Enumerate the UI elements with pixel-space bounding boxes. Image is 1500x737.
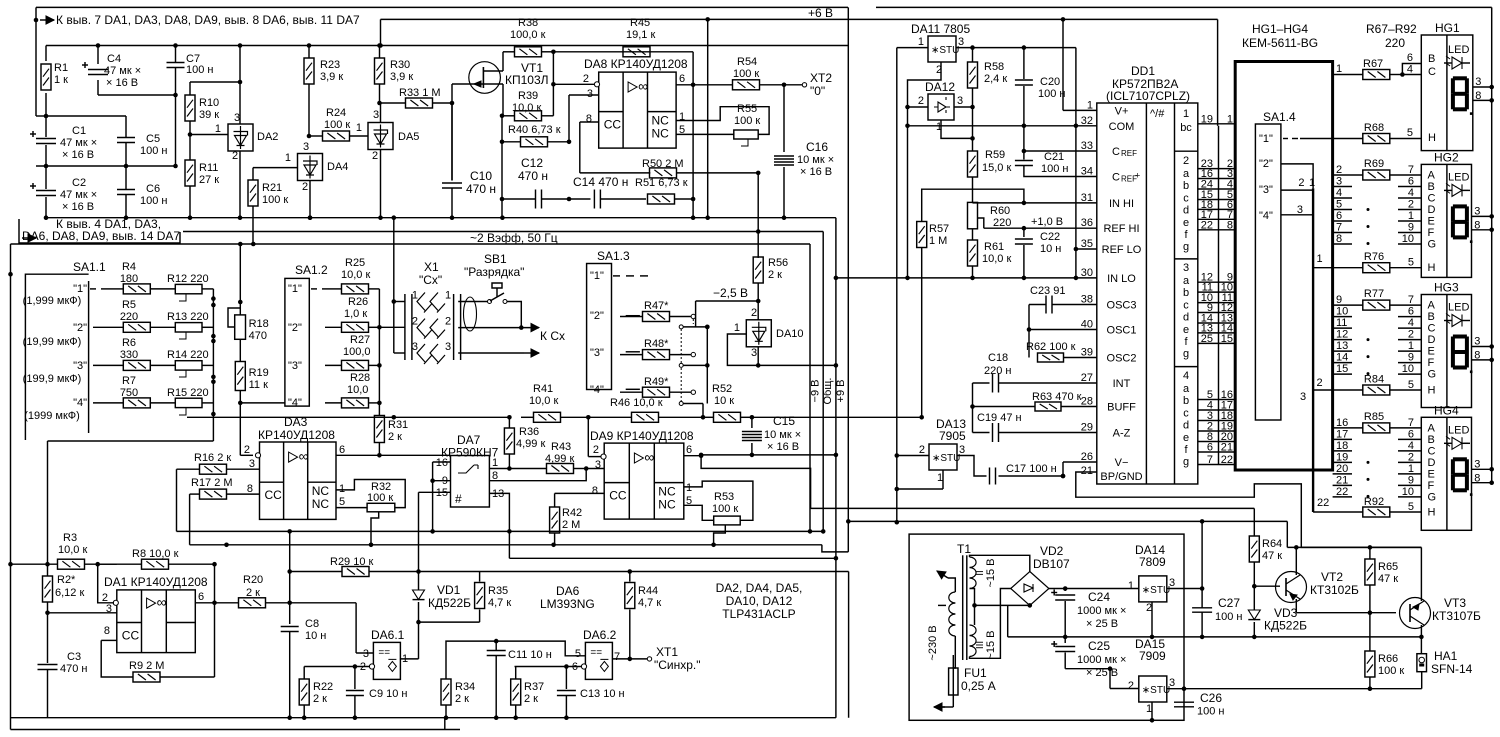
wire DA11 pin3 +5V line	[956, 47, 1076, 49]
svg-text:6: 6	[1336, 210, 1342, 222]
wire DA13 pin3 C17 to V-	[957, 456, 987, 477]
wire DA1 pin6	[195, 602, 239, 604]
svg-text:2 к: 2 к	[388, 431, 402, 443]
capacitor C27	[1192, 607, 1212, 609]
svg-text:C: C	[1428, 445, 1436, 457]
svg-text:31: 31	[1081, 192, 1093, 204]
svg-text:7: 7	[1207, 454, 1213, 466]
wire K Cx arrow	[521, 327, 539, 329]
preset R13	[175, 323, 202, 332]
svg-text:a: a	[1183, 383, 1190, 395]
svg-text:27: 27	[1081, 372, 1093, 384]
svg-text:47 мк ×: 47 мк ×	[104, 65, 141, 77]
svg-text:d: d	[1183, 312, 1189, 324]
svg-text:2 к: 2 к	[524, 693, 538, 705]
svg-text:A: A	[1428, 422, 1436, 434]
wire DA2 pin1 from R10/R11	[190, 134, 228, 136]
wire X1 row3 arrow	[458, 352, 524, 354]
svg-text:F: F	[1428, 227, 1435, 239]
svg-text:SFN-14: SFN-14	[1431, 662, 1473, 676]
svg-text:R37: R37	[524, 681, 544, 693]
svg-text:4: 4	[1183, 370, 1189, 382]
svg-text:5: 5	[1408, 501, 1414, 513]
svg-text:DA6.1: DA6.1	[371, 628, 405, 642]
svg-text:R39: R39	[518, 90, 538, 102]
svg-text:5: 5	[575, 648, 581, 660]
svg-text:R51 6,73 к: R51 6,73 к	[635, 177, 688, 189]
op-amp DA3	[260, 442, 337, 519]
svg-text:R44: R44	[638, 585, 658, 597]
svg-text:SA1.4: SA1.4	[1263, 110, 1296, 124]
svg-text:1: 1	[1408, 340, 1414, 352]
resistor R22	[303, 667, 305, 680]
capacitor C25	[1064, 637, 1066, 643]
resistor R4	[110, 288, 123, 290]
svg-text:10,0 к: 10,0 к	[58, 544, 87, 556]
svg-text:2: 2	[1408, 199, 1414, 211]
wire VT2 base	[1254, 585, 1280, 587]
svg-text:4: 4	[1408, 187, 1414, 199]
resistor R64	[1249, 536, 1259, 562]
svg-text:NC: NC	[652, 114, 670, 128]
svg-text:39 к: 39 к	[199, 109, 219, 121]
wire R43 to DA9 pin3	[586, 468, 604, 470]
svg-text:2 к: 2 к	[313, 693, 327, 705]
svg-text:E: E	[1428, 346, 1435, 358]
wire DA5 pin2 down	[380, 150, 382, 218]
svg-text:R14 220: R14 220	[167, 349, 209, 361]
svg-text:HA1: HA1	[1434, 649, 1458, 663]
svg-text:C24: C24	[1088, 590, 1110, 604]
svg-text:DA4: DA4	[327, 161, 348, 173]
wire X1 row2	[458, 327, 521, 329]
svg-text:11 к: 11 к	[249, 379, 268, 391]
svg-text:1: 1	[734, 322, 740, 334]
svg-text:DA12: DA12	[925, 80, 955, 94]
wire rail3	[509, 557, 836, 559]
svg-text:R8 10,0 к: R8 10,0 к	[132, 548, 179, 560]
resistor R11	[189, 135, 191, 161]
resistor R45	[692, 52, 694, 85]
resistor R28	[325, 402, 341, 404]
svg-text:R63 470 к: R63 470 к	[1032, 391, 1082, 403]
svg-text:47 к: 47 к	[1262, 550, 1282, 562]
svg-text:"Cх": "Cх"	[419, 273, 442, 287]
wire R25-R28 bus	[378, 289, 380, 416]
capacitor C6	[125, 166, 127, 189]
svg-text:3: 3	[303, 141, 309, 153]
svg-text:220: 220	[1385, 36, 1405, 50]
svg-text:LED: LED	[1448, 302, 1469, 314]
svg-text:16: 16	[1336, 417, 1348, 429]
svg-text:3: 3	[959, 444, 965, 456]
resistor R39	[502, 115, 515, 117]
svg-text:H: H	[1428, 132, 1436, 144]
svg-text:2: 2	[918, 95, 924, 107]
svg-text:C25: C25	[1088, 639, 1110, 653]
wire DA4 pin2 down	[309, 181, 311, 218]
svg-text:× 16 В: × 16 В	[106, 77, 138, 89]
capacitor C2	[45, 166, 47, 189]
svg-text:1000 мк ×: 1000 мк ×	[1077, 654, 1126, 666]
svg-text:C22: C22	[1040, 231, 1060, 243]
svg-text:C26: C26	[1200, 691, 1222, 705]
svg-text:~15 В: ~15 В	[985, 558, 997, 587]
svg-text:0,25 А: 0,25 А	[961, 679, 996, 693]
resistor R30	[379, 46, 381, 59]
svg-text:R27: R27	[350, 334, 370, 346]
svg-text:26: 26	[1081, 451, 1093, 463]
svg-text:C4: C4	[107, 53, 121, 65]
svg-text:3: 3	[1474, 458, 1480, 470]
svg-text:4: 4	[1407, 64, 1413, 76]
svg-text:SA1.2: SA1.2	[295, 263, 328, 277]
svg-text:B: B	[1428, 53, 1435, 65]
svg-text:C14 470 н: C14 470 н	[573, 175, 628, 189]
wire DA12 pin2	[908, 106, 929, 108]
svg-text:3: 3	[234, 112, 240, 124]
resistor R58	[972, 48, 974, 62]
svg-text:10 мк ×: 10 мк ×	[797, 154, 834, 166]
wire DA10 pin1 loop to pin3	[727, 334, 758, 365]
svg-text:R84: R84	[1364, 374, 1384, 386]
svg-text:3: 3	[1183, 262, 1189, 274]
svg-text:10,0 к: 10,0 к	[341, 269, 370, 281]
svg-text:X1: X1	[424, 260, 439, 274]
wire IN LO link	[836, 277, 908, 279]
svg-text:C20: C20	[1040, 76, 1060, 88]
svg-text:16: 16	[436, 457, 448, 469]
svg-text:"2": "2"	[288, 322, 302, 334]
svg-text:10: 10	[1402, 363, 1414, 375]
svg-text:"4": "4"	[590, 384, 604, 396]
svg-text:22: 22	[1317, 497, 1329, 509]
wire DA12 pin3	[954, 106, 973, 108]
wire R58-R59 chain	[972, 88, 974, 151]
wire DA7 pin16/9	[433, 461, 451, 463]
svg-text:IN HI: IN HI	[1109, 198, 1134, 210]
svg-text:14: 14	[1336, 352, 1348, 364]
resistor R47*	[620, 316, 642, 318]
svg-text:100 к: 100 к	[324, 119, 350, 131]
capacitor C1	[45, 116, 47, 137]
svg-text:"2": "2"	[1259, 158, 1273, 170]
svg-text:V+: V+	[1115, 105, 1129, 117]
resistor R62	[1028, 330, 1030, 358]
wire center rail	[975, 604, 1030, 606]
wire HG1 pins 3 8	[1473, 86, 1492, 88]
resistor R3	[8, 562, 13, 567]
svg-text:10: 10	[1402, 486, 1414, 498]
wire bus2 ~2V line	[183, 231, 823, 233]
capacitor C16	[783, 85, 785, 152]
svg-text:100 к: 100 к	[733, 68, 759, 80]
resistor R29	[290, 571, 342, 573]
svg-text:FU1: FU1	[964, 666, 987, 680]
svg-text:T1: T1	[957, 542, 971, 556]
svg-text:2: 2	[919, 444, 925, 456]
wire DA11 pin2 loop to DA12	[908, 62, 942, 278]
svg-text:1: 1	[445, 290, 451, 302]
svg-text:R62 100 к: R62 100 к	[1026, 341, 1076, 353]
svg-text:6: 6	[339, 444, 345, 456]
wire DA6.1 out vertical	[418, 622, 420, 659]
wire DA10 to obsh rail	[758, 364, 836, 366]
svg-text:КТ3102Б: КТ3102Б	[1310, 583, 1359, 597]
svg-text:+9 В: +9 В	[835, 380, 847, 403]
svg-text:TLP431ACLP: TLP431ACLP	[722, 607, 795, 621]
svg-text:XT2: XT2	[810, 71, 832, 85]
svg-text:"4": "4"	[288, 397, 302, 409]
svg-text:12: 12	[1336, 329, 1348, 341]
wire DA10 pin2	[757, 301, 759, 320]
wire bus down to DA1 input	[48, 440, 214, 442]
svg-text:R58: R58	[984, 61, 1004, 73]
IC DD1 to cable wires	[1198, 123, 1235, 125]
svg-text:2: 2	[244, 444, 250, 456]
capacitor C26	[1174, 701, 1194, 703]
wire -15 rail	[1065, 668, 1110, 670]
svg-text:REF LO: REF LO	[1102, 244, 1142, 256]
wire DA6.2 pin6 R37 C13	[515, 666, 583, 668]
resistor R43	[509, 468, 547, 470]
svg-text:× 25 В: × 25 В	[1086, 618, 1118, 630]
svg-text:C11 10 н: C11 10 н	[508, 649, 552, 661]
svg-text:e: e	[1183, 217, 1189, 229]
resistor R66	[1369, 613, 1371, 651]
svg-text:C10: C10	[470, 169, 492, 183]
svg-text:100 н: 100 н	[1197, 706, 1224, 718]
svg-text:R40 6,73 к: R40 6,73 к	[508, 124, 561, 136]
svg-text:R66: R66	[1378, 653, 1398, 665]
resistor R37	[515, 667, 517, 680]
svg-text:G: G	[1428, 239, 1437, 251]
svg-text:× 16 В: × 16 В	[800, 166, 832, 178]
wire main row R41	[187, 416, 509, 418]
resistor R48*	[620, 354, 642, 356]
svg-text:2 к: 2 к	[246, 587, 260, 599]
svg-text:B: B	[1428, 434, 1435, 446]
switch SA1.3 dashes	[613, 275, 620, 277]
svg-text:32: 32	[1081, 115, 1093, 127]
svg-text:22: 22	[1221, 454, 1233, 466]
wire DA8 pin6 to R45/R54	[676, 84, 732, 86]
wire VT2 emitter	[1295, 599, 1297, 613]
svg-text:1: 1	[492, 457, 498, 469]
preset R18	[239, 244, 241, 315]
analog switch DA7	[451, 456, 490, 508]
svg-text:B: B	[1428, 311, 1435, 323]
resistor R65	[1369, 547, 1371, 559]
svg-text:КЕМ-5611-BG: КЕМ-5611-BG	[1242, 36, 1318, 50]
wire number column separator	[1218, 126, 1220, 465]
svg-text:"1": "1"	[288, 283, 302, 295]
svg-text:+6 В: +6 В	[808, 6, 833, 20]
svg-text:R5: R5	[122, 299, 136, 311]
resistor R9 2M	[101, 639, 117, 641]
svg-text:G: G	[1428, 369, 1437, 381]
svg-text:NC: NC	[312, 497, 330, 511]
svg-text:"3": "3"	[73, 360, 87, 372]
resistor R31	[374, 416, 384, 443]
svg-text:~2 Вэфф, 50 Гц: ~2 Вэфф, 50 Гц	[470, 231, 558, 245]
svg-text:47 мк ×: 47 мк ×	[60, 189, 97, 201]
capacitor C15	[751, 417, 753, 428]
resistor R17	[190, 493, 200, 495]
svg-text:e: e	[1183, 432, 1189, 444]
svg-text:"1": "1"	[590, 270, 604, 282]
svg-text:REF: REF	[1121, 149, 1137, 158]
wire contact bus to -2.5V	[684, 326, 708, 328]
svg-text:NC: NC	[658, 485, 676, 499]
svg-text:10,0 к: 10,0 к	[982, 253, 1011, 265]
svg-text:~15 В: ~15 В	[985, 630, 997, 659]
svg-text:8: 8	[1474, 219, 1480, 231]
svg-text:КР140УД1208: КР140УД1208	[258, 428, 335, 442]
svg-text:∞: ∞	[157, 594, 167, 610]
svg-text:G: G	[1428, 491, 1437, 503]
capacitor C24	[1064, 589, 1066, 592]
switch SA1.3 box	[587, 264, 612, 390]
svg-text:9: 9	[1408, 222, 1414, 234]
svg-text:"2": "2"	[590, 310, 604, 322]
svg-text:NC: NC	[312, 484, 330, 498]
svg-text:15: 15	[1221, 333, 1233, 345]
svg-text:6: 6	[1408, 176, 1414, 188]
svg-text:К выв. 7 DA1, DA3, DA8, DA9, в: К выв. 7 DA1, DA3, DA8, DA9, выв. 8 DA6,…	[56, 13, 360, 27]
svg-text:HG3: HG3	[1434, 281, 1459, 295]
wire SA1.4 row4	[1281, 214, 1313, 216]
capacitor C9	[354, 667, 356, 690]
wire SA1.3 row3 stub	[626, 351, 640, 353]
svg-text:180: 180	[120, 273, 138, 285]
svg-text:R18: R18	[249, 318, 269, 330]
wire C15 bottom to obsh	[701, 454, 836, 456]
svg-text:Общ.: Общ.	[822, 378, 834, 405]
diode VD3	[1253, 586, 1255, 610]
svg-text:H: H	[1428, 507, 1436, 519]
resistor R25	[330, 288, 341, 290]
transistor VT1 KP103L jfet	[469, 62, 501, 94]
svg-text:F: F	[1428, 480, 1435, 492]
comparator DA6.1	[373, 642, 400, 679]
wire left drop to K vyv.7 arrow	[35, 7, 37, 20]
svg-text:100 к: 100 к	[734, 115, 760, 127]
wire bottom bus y=217.7	[46, 217, 836, 219]
svg-text:"2": "2"	[73, 322, 87, 334]
resistor R56	[757, 232, 759, 258]
svg-text:d: d	[1183, 205, 1189, 217]
svg-text:7809: 7809	[1139, 555, 1166, 569]
wire V- row	[1063, 461, 1097, 463]
svg-text:1,0 к: 1,0 к	[344, 308, 367, 320]
wire DA8 pin5 to R55 left	[676, 133, 734, 135]
svg-text:3: 3	[958, 36, 964, 48]
svg-text:NC: NC	[652, 127, 670, 141]
resistor R7	[93, 402, 123, 404]
resistor R10	[189, 82, 191, 95]
svg-text:2: 2	[751, 307, 757, 319]
svg-text:100,0: 100,0	[343, 346, 371, 358]
wire REF HI row	[984, 227, 1097, 229]
capacitor C4	[97, 46, 99, 65]
resistor R21	[252, 168, 254, 181]
svg-text:1: 1	[918, 36, 924, 48]
wire +9V vertical	[1201, 521, 1203, 607]
resistor R41	[534, 412, 561, 422]
svg-text:470 н: 470 н	[60, 663, 87, 675]
svg-text:750: 750	[120, 387, 138, 399]
svg-text:SA1.3: SA1.3	[597, 249, 630, 263]
wire DA14 pin2	[1151, 602, 1153, 637]
svg-text:22: 22	[1201, 219, 1213, 231]
svg-text:DA5: DA5	[398, 131, 419, 143]
svg-text:HG1–HG4: HG1–HG4	[1252, 22, 1308, 36]
svg-text:R56: R56	[768, 257, 788, 269]
resistor R42	[550, 507, 560, 533]
wire R10 top to DA2 rail	[190, 81, 240, 83]
wire OSC1 row	[1029, 329, 1097, 331]
svg-text:REF HI: REF HI	[1103, 223, 1139, 235]
resistor R57	[917, 222, 927, 248]
svg-text:DA2, DA4, DA5,: DA2, DA4, DA5,	[716, 581, 803, 595]
transistor VT3 KT3107B	[1400, 598, 1431, 629]
svg-text:220: 220	[993, 217, 1011, 229]
wire DA13 pin1	[942, 470, 944, 489]
wire DA3 pin1 loop	[336, 480, 405, 508]
wire rail4 end down	[848, 572, 850, 718]
svg-text:R43: R43	[551, 441, 571, 453]
svg-text:R53: R53	[714, 491, 734, 503]
svg-text:34: 34	[1081, 166, 1093, 178]
svg-text:2: 2	[593, 444, 599, 456]
diode VD1	[418, 572, 420, 591]
svg-text:R22: R22	[313, 681, 333, 693]
svg-text:OSC1: OSC1	[1107, 325, 1137, 337]
svg-text:21: 21	[1081, 465, 1093, 477]
resistor R26	[325, 326, 341, 328]
wire R20 out rail	[290, 602, 356, 604]
svg-text:b: b	[1183, 395, 1189, 407]
wire IN LO row	[908, 277, 1097, 279]
svg-text:A-Z: A-Z	[1113, 428, 1131, 440]
resistor R68	[1300, 138, 1363, 140]
preset R14	[175, 361, 202, 370]
svg-text:R15 220: R15 220	[167, 387, 209, 399]
svg-text:13: 13	[1336, 340, 1348, 352]
svg-text:8: 8	[586, 113, 592, 125]
resistor R19	[239, 339, 241, 362]
wire SA1.1 common to frame	[8, 272, 13, 277]
svg-text:R36: R36	[519, 426, 539, 438]
svg-text:R41: R41	[533, 383, 553, 395]
svg-text:R33 1 М: R33 1 М	[399, 87, 441, 99]
svg-text:R92: R92	[1364, 496, 1384, 508]
svg-text:LM393NG: LM393NG	[540, 597, 595, 611]
svg-text:R52: R52	[712, 383, 732, 395]
svg-text:8: 8	[1227, 219, 1233, 231]
svg-text:7909: 7909	[1139, 649, 1166, 663]
wire right rail	[1491, 7, 1493, 481]
wire DA8 pin1 loop over R55	[676, 107, 769, 135]
wire DA9 pin5	[684, 505, 714, 520]
op-amp DA9	[604, 443, 684, 519]
svg-text:R50 2 М: R50 2 М	[642, 158, 684, 170]
wire HG1 pin1 row	[1333, 74, 1364, 76]
svg-text:10 к: 10 к	[714, 395, 734, 407]
svg-text:OSC2: OSC2	[1107, 353, 1137, 365]
svg-text:220 н: 220 н	[984, 365, 1011, 377]
